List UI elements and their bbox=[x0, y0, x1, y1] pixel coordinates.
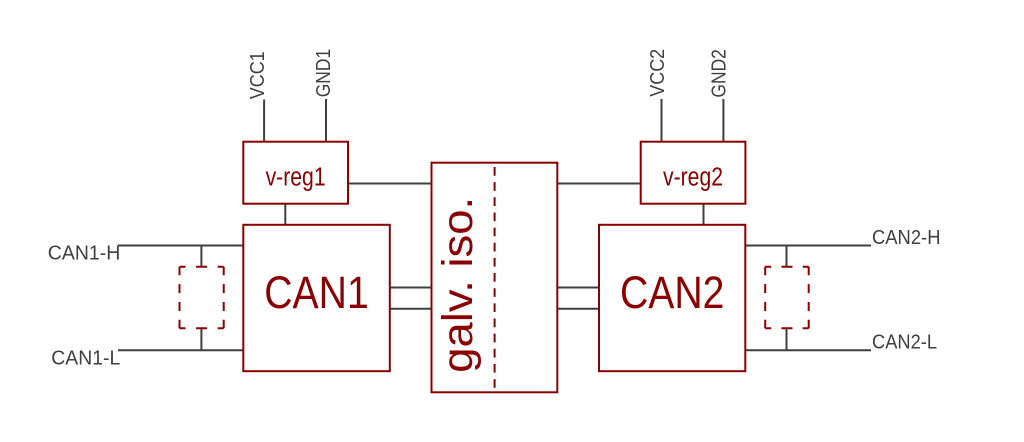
svg-text:CAN2-L: CAN2-L bbox=[872, 332, 937, 354]
svg-text:CAN1: CAN1 bbox=[264, 267, 369, 318]
svg-text:CAN2: CAN2 bbox=[620, 267, 725, 318]
svg-text:VCC2: VCC2 bbox=[647, 49, 669, 97]
svg-text:CAN1-L: CAN1-L bbox=[51, 347, 120, 369]
svg-text:CAN2-H: CAN2-H bbox=[872, 227, 941, 249]
svg-text:GND2: GND2 bbox=[709, 49, 731, 98]
svg-text:v-reg2: v-reg2 bbox=[663, 164, 723, 192]
svg-text:CAN1-H: CAN1-H bbox=[48, 243, 121, 265]
svg-text:GND1: GND1 bbox=[313, 49, 335, 98]
svg-text:galv. iso.: galv. iso. bbox=[434, 197, 482, 373]
svg-text:v-reg1: v-reg1 bbox=[266, 164, 326, 192]
svg-text:VCC1: VCC1 bbox=[247, 51, 269, 99]
